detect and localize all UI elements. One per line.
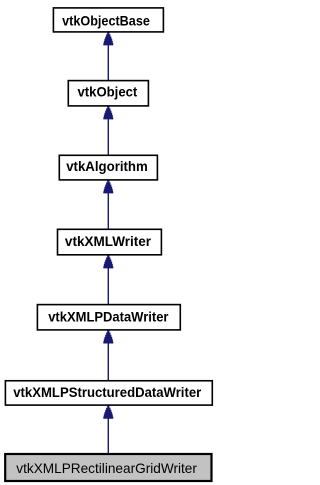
edge from vtkAlgorithm to vtkObject: [103, 106, 113, 155]
edge from vtkObject to vtkObjectBase: [103, 32, 113, 80]
svg-text:vtkObject: vtkObject: [78, 84, 138, 99]
class box vtkObjectBase: [53, 8, 163, 32]
class box vtkObject: [68, 81, 148, 106]
svg-text:vtkObjectBase: vtkObjectBase: [62, 14, 150, 29]
svg-text:vtkXMLWriter: vtkXMLWriter: [65, 234, 152, 249]
class box vtkXMLPRectilinearGridWriter (current class, gray): [5, 454, 211, 481]
edge from vtkXMLPDataWriter to vtkXMLWriter: [103, 255, 113, 304]
class box vtkXMLWriter: [58, 229, 162, 255]
class box vtkXMLPStructuredDataWriter: [5, 381, 212, 405]
class box vtkXMLPDataWriter: [37, 305, 180, 330]
edge from vtkXMLPStructuredDataWriter to vtkXMLPDataWriter: [103, 330, 113, 380]
class box vtkAlgorithm: [59, 155, 157, 180]
edge from vtkXMLPRectilinearGridWriter to vtkXMLPStructuredDataWriter: [103, 406, 113, 454]
svg-text:vtkXMLPDataWriter: vtkXMLPDataWriter: [48, 310, 169, 325]
svg-text:vtkXMLPStructuredDataWriter: vtkXMLPStructuredDataWriter: [13, 385, 202, 400]
edge from vtkXMLWriter to vtkAlgorithm: [103, 180, 113, 229]
svg-text:vtkXMLPRectilinearGridWriter: vtkXMLPRectilinearGridWriter: [16, 461, 197, 476]
svg-text:vtkAlgorithm: vtkAlgorithm: [66, 159, 148, 174]
